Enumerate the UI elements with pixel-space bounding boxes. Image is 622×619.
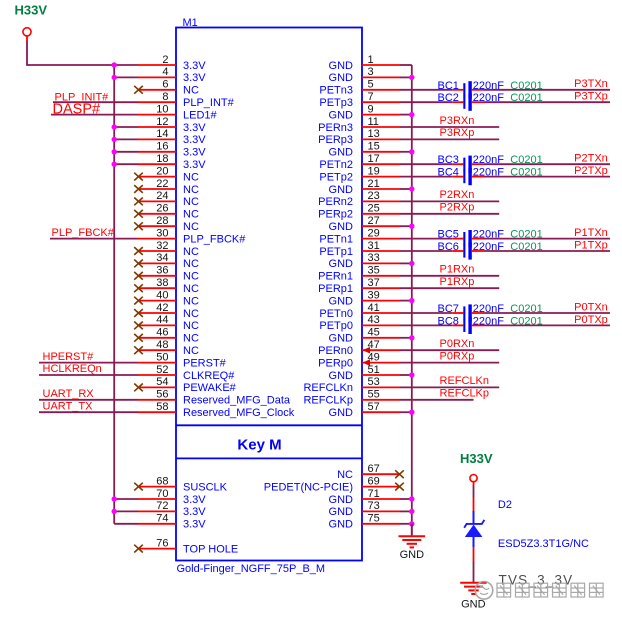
svg-text:39: 39 [368, 289, 380, 301]
pin 19 PETp2 [319, 165, 400, 183]
capacitor BC5 220nF C0201 [438, 229, 543, 248]
svg-text:GND: GND [400, 549, 425, 561]
net label P2RXp [440, 202, 475, 214]
svg-text:31: 31 [368, 240, 380, 252]
pin 26 NC [134, 203, 199, 221]
svg-text:10: 10 [156, 103, 168, 115]
wire BC8 to net P0TXp [484, 324, 610, 326]
wire net P1RXn [400, 275, 499, 277]
svg-text:3.3V: 3.3V [183, 519, 206, 531]
pin 25 PERp2 [318, 203, 400, 221]
svg-text:GND: GND [329, 407, 354, 419]
wire pin 21 to GND bus [400, 186, 414, 191]
svg-text:GND: GND [329, 72, 354, 84]
ground symbol (connector GND) [399, 524, 426, 561]
pin 37 PERp1 [318, 277, 400, 295]
wire pin 7 to BC2 [400, 101, 452, 103]
wire pin 73 to GND bus [400, 509, 414, 514]
svg-text:46: 46 [156, 327, 168, 339]
pin 21 GND [329, 178, 400, 196]
svg-text:12: 12 [156, 116, 168, 128]
svg-text:57: 57 [368, 401, 380, 413]
wire net P0RXn [400, 349, 499, 351]
svg-text:3.3V: 3.3V [183, 494, 206, 506]
wire net UART_RX to pin 56 [39, 399, 138, 401]
svg-text:PLP_FBCK#: PLP_FBCK# [183, 233, 246, 245]
svg-text:BC2: BC2 [438, 92, 459, 104]
svg-text:NC: NC [183, 320, 199, 332]
designator D2 [498, 499, 512, 511]
wire net DASP# to pin 10 [51, 114, 138, 116]
pin 12 3.3V [112, 116, 207, 134]
svg-text:3.3V: 3.3V [183, 134, 206, 146]
pin 44 NC [134, 314, 199, 332]
svg-text:PETp0: PETp0 [319, 320, 353, 332]
pin 72 3.3V [112, 500, 207, 518]
svg-text:2: 2 [162, 54, 168, 66]
svg-text:PETn3: PETn3 [319, 85, 353, 97]
svg-text:GND: GND [461, 598, 486, 610]
capacitor BC1 220nF C0201 [438, 80, 543, 99]
wire pin 15 to GND bus [400, 149, 414, 154]
net label P0RXn [440, 338, 475, 350]
svg-text:P0RXn: P0RXn [440, 338, 475, 350]
pin 11 PERn3 [318, 116, 400, 134]
net label P1TXp [574, 239, 608, 251]
wire net UART_TX to pin 58 [39, 411, 138, 413]
svg-text:75: 75 [368, 513, 380, 525]
wire net REFCLKn [400, 386, 499, 388]
svg-text:11: 11 [368, 116, 379, 128]
pin 24 NC [134, 190, 199, 208]
svg-text:24: 24 [156, 190, 168, 202]
pin 3 GND [329, 66, 400, 84]
svg-text:REFCLKp: REFCLKp [440, 388, 490, 400]
wire BC2 to net P3TXp [484, 101, 610, 103]
wire BC7 to net P0TXn [484, 312, 610, 314]
wire pin 31 to BC6 [400, 250, 452, 252]
svg-text:NC: NC [183, 333, 199, 345]
svg-text:REFCLKp: REFCLKp [303, 395, 353, 407]
net label P1TXn [574, 227, 608, 239]
net label P2TXn [574, 153, 608, 165]
svg-text:PETp3: PETp3 [319, 97, 353, 109]
svg-text:PERST#: PERST# [183, 357, 227, 369]
net label P1RXp [440, 276, 475, 288]
svg-text:43: 43 [368, 314, 380, 326]
wire pin 57 to GND bus [400, 410, 414, 415]
watermark logo [475, 582, 493, 600]
svg-text:PEWAKE#: PEWAKE# [183, 382, 237, 394]
pin 67 NC [337, 463, 404, 481]
svg-text:PERp1: PERp1 [318, 283, 353, 295]
svg-text:SUSCLK: SUSCLK [183, 481, 228, 493]
svg-text:70: 70 [156, 488, 168, 500]
net label PLP_INIT# [55, 92, 110, 104]
svg-text:NC: NC [183, 221, 199, 233]
pin 20 NC [134, 165, 199, 183]
net label PLP_FBCK# [52, 227, 115, 239]
pin 45 GND [329, 327, 400, 345]
svg-text:P3TXp: P3TXp [574, 91, 608, 103]
svg-text:P0TXp: P0TXp [574, 314, 608, 326]
svg-text:30: 30 [156, 227, 168, 239]
svg-text:P2TXp: P2TXp [574, 165, 608, 177]
pin 42 NC [134, 302, 199, 320]
pin 48 NC [134, 339, 199, 357]
svg-text:GND: GND [329, 184, 354, 196]
pin 31 PETp1 [319, 240, 400, 258]
wire net P3RXp [400, 138, 499, 140]
svg-text:BC4: BC4 [438, 167, 459, 179]
svg-text:35: 35 [368, 265, 380, 277]
svg-text:76: 76 [156, 537, 168, 549]
comment TVS_3_3V [499, 573, 574, 588]
svg-text:3: 3 [368, 66, 374, 78]
svg-text:53: 53 [368, 376, 380, 388]
svg-text:REFCLKn: REFCLKn [440, 375, 490, 387]
svg-text:54: 54 [156, 376, 168, 388]
pin 36 NC [134, 265, 199, 283]
net label P0TXp [574, 314, 608, 326]
svg-text:GND: GND [329, 109, 354, 121]
pin 4 3.3V [112, 66, 207, 84]
svg-text:GND: GND [329, 147, 354, 159]
pin 68 SUSCLK [134, 475, 227, 493]
svg-text:27: 27 [368, 215, 380, 227]
svg-text:23: 23 [368, 190, 380, 202]
capacitor BC6 220nF C0201 [438, 241, 543, 260]
pin 13 PERp3 [318, 128, 400, 146]
part name Gold-Finger_NGFF_75P_B_M [177, 563, 326, 575]
svg-text:68: 68 [156, 475, 168, 487]
wire BC1 to net P3TXn [484, 89, 610, 91]
svg-text:P3RXn: P3RXn [440, 115, 475, 127]
GND right bus [411, 65, 413, 535]
svg-text:55: 55 [368, 389, 380, 401]
svg-text:34: 34 [156, 252, 168, 264]
svg-text:GND: GND [329, 333, 354, 345]
pin 53 REFCLKn [303, 376, 400, 394]
svg-text:TVS_3_3V: TVS_3_3V [499, 573, 574, 588]
svg-text:44: 44 [156, 314, 168, 326]
svg-text:15: 15 [368, 141, 380, 153]
svg-text:50: 50 [156, 351, 168, 363]
svg-text:REFCLKn: REFCLKn [303, 382, 353, 394]
pin 6 NC [134, 79, 199, 97]
net label UART_TX [43, 400, 94, 412]
pin 58 Reserved_MFG_Clock [138, 401, 295, 419]
svg-text:26: 26 [156, 203, 168, 215]
net label REFCLKn [440, 375, 490, 387]
svg-text:6: 6 [162, 79, 168, 91]
svg-text:P1RXp: P1RXp [440, 276, 475, 288]
net label P0RXp [440, 350, 475, 362]
svg-text:3.3V: 3.3V [183, 147, 206, 159]
svg-text:P3RXp: P3RXp [440, 127, 475, 139]
wire pin 41 to BC7 [400, 312, 452, 314]
svg-text:67: 67 [368, 463, 380, 475]
svg-text:5: 5 [368, 79, 374, 91]
svg-text:3.3V: 3.3V [183, 159, 206, 171]
net label P2RXn [440, 189, 475, 201]
net label P3TXp [574, 91, 608, 103]
svg-text:GND: GND [329, 258, 354, 270]
pin 57 GND [329, 401, 400, 419]
svg-text:19: 19 [368, 165, 380, 177]
pin 2 3.3V [112, 54, 207, 72]
svg-text:LED1#: LED1# [183, 109, 218, 121]
svg-text:P2TXn: P2TXn [574, 153, 608, 165]
pin 52 CLKREQ# [138, 364, 235, 382]
net label HPERST# [43, 351, 95, 363]
pin 51 GND [329, 364, 400, 382]
svg-text:3.3V: 3.3V [183, 506, 206, 518]
wire pin 33 to GND bus [400, 261, 414, 266]
svg-text:PERn1: PERn1 [318, 271, 353, 283]
wire net REFCLKp [400, 399, 474, 401]
wire net HPERST# to pin 50 [39, 362, 138, 364]
pin 55 REFCLKp [303, 389, 400, 407]
pin 30 PLP_FBCK# [138, 227, 246, 245]
section label Key M [237, 437, 281, 454]
svg-text:1: 1 [368, 54, 374, 66]
net label UART_RX [43, 388, 95, 400]
wire pin 9 to GND bus [400, 112, 414, 117]
svg-text:PETp2: PETp2 [319, 171, 353, 183]
wire H33V to 3.3V bus [27, 41, 114, 65]
svg-text:GND: GND [329, 370, 354, 382]
net label P0TXn [574, 301, 608, 313]
svg-text:13: 13 [368, 128, 380, 140]
power port H33V (bottom right) [460, 451, 493, 485]
svg-text:GND: GND [329, 506, 354, 518]
pin 23 PERn2 [318, 190, 400, 208]
svg-text:9: 9 [368, 103, 374, 115]
wire pin 71 to GND bus [400, 496, 414, 501]
pin 34 NC [134, 252, 199, 270]
power port H33V (top left) [15, 3, 48, 42]
pin 73 GND [329, 500, 400, 518]
svg-text:NC: NC [183, 196, 199, 208]
svg-text:NC: NC [183, 85, 199, 97]
net label P2TXp [574, 165, 608, 177]
wire pin 17 to BC3 [400, 163, 452, 165]
pin 40 NC [134, 289, 199, 307]
svg-text:4: 4 [162, 66, 168, 78]
net label P3TXn [574, 78, 608, 90]
svg-text:BC7: BC7 [438, 303, 459, 315]
svg-text:41: 41 [368, 302, 380, 314]
pin 54 PEWAKE# [134, 376, 236, 394]
pin 46 NC [134, 327, 199, 345]
wire pin 29 to BC5 [400, 238, 452, 240]
svg-text:51: 51 [368, 364, 380, 376]
part value ESD5Z3.3T1G/NC [498, 538, 589, 550]
wire pin 43 to BC8 [400, 324, 452, 326]
wire pin 39 to GND bus [400, 298, 414, 303]
svg-text:42: 42 [156, 302, 168, 314]
svg-text:25: 25 [368, 203, 380, 215]
wire pin 27 to GND bus [400, 224, 414, 229]
pin 28 NC [134, 215, 199, 233]
pin 50 PERST# [138, 351, 227, 369]
svg-text:P2RXn: P2RXn [440, 189, 475, 201]
svg-text:BC8: BC8 [438, 315, 459, 327]
svg-text:CLKREQ#: CLKREQ# [183, 370, 235, 382]
pin 8 PLP_INT# [138, 91, 235, 109]
input arrow pin 47 [363, 347, 371, 354]
wire pin 51 to GND bus [400, 372, 414, 377]
svg-text:P3TXn: P3TXn [574, 78, 608, 90]
svg-text:38: 38 [156, 277, 168, 289]
svg-text:3.3V: 3.3V [183, 72, 206, 84]
pin 22 NC [134, 178, 199, 196]
svg-text:NC: NC [183, 271, 199, 283]
wire net P1RXp [400, 287, 499, 289]
wire BC6 to net P1TXp [484, 250, 610, 252]
net label P3RXp [440, 127, 475, 139]
svg-text:29: 29 [368, 227, 380, 239]
svg-text:22: 22 [156, 178, 168, 190]
svg-text:TOP HOLE: TOP HOLE [183, 543, 238, 555]
svg-text:8: 8 [162, 91, 168, 103]
svg-text:40: 40 [156, 289, 168, 301]
svg-text:Reserved_MFG_Clock: Reserved_MFG_Clock [183, 407, 295, 419]
wire BC3 to net P2TXn [484, 163, 610, 165]
pin 43 PETp0 [319, 314, 400, 332]
svg-text:69: 69 [368, 475, 380, 487]
pin 7 PETp3 [319, 91, 400, 109]
pin 69 PEDET(NC-PCIE) [264, 475, 404, 493]
capacitor BC7 220nF C0201 [438, 303, 543, 322]
svg-text:32: 32 [156, 240, 168, 252]
capacitor BC3 220nF C0201 [438, 154, 543, 173]
3.3V left bus [113, 65, 115, 524]
svg-text:PEDET(NC-PCIE): PEDET(NC-PCIE) [264, 481, 353, 493]
svg-text:PETn0: PETn0 [319, 308, 353, 320]
svg-text:52: 52 [156, 364, 168, 376]
wire net P2RXn [400, 200, 499, 202]
wire pin 5 to BC1 [400, 89, 452, 91]
svg-text:NC: NC [183, 345, 199, 357]
svg-text:BC3: BC3 [438, 154, 459, 166]
svg-text:74: 74 [156, 513, 168, 525]
svg-text:PERp2: PERp2 [318, 209, 353, 221]
net label DASP# [53, 102, 101, 118]
svg-text:Key M: Key M [237, 437, 281, 454]
svg-text:PERn2: PERn2 [318, 196, 353, 208]
pin 75 GND [329, 513, 400, 531]
svg-text:DASP#: DASP# [53, 102, 101, 118]
pin 70 3.3V [112, 488, 207, 506]
pin 14 3.3V [112, 128, 207, 146]
svg-text:M1: M1 [183, 17, 198, 29]
svg-text:7: 7 [368, 91, 374, 103]
wire net P0RXp [400, 362, 499, 364]
svg-text:GND: GND [329, 494, 354, 506]
wire pin 3 to GND bus [400, 75, 414, 80]
svg-text:P1RXn: P1RXn [440, 264, 475, 276]
svg-text:58: 58 [156, 401, 168, 413]
wire net P3RXn [400, 126, 499, 128]
svg-text:NC: NC [183, 171, 199, 183]
pin 38 NC [134, 277, 199, 295]
pin 29 PETn1 [319, 227, 400, 245]
svg-text:NC: NC [183, 209, 199, 221]
pin 39 GND [329, 289, 400, 307]
pin 18 3.3V [112, 153, 207, 171]
pin 1 GND [329, 54, 400, 72]
capacitor BC2 220nF C0201 [438, 92, 543, 111]
pin 32 NC [134, 240, 199, 258]
svg-text:PERp0: PERp0 [318, 357, 353, 369]
svg-text:H33V: H33V [460, 451, 493, 466]
wire net PLP_FBCK# to pin 30 [50, 238, 138, 240]
wire pin 1 to GND bus [400, 64, 412, 66]
svg-text:PERn0: PERn0 [318, 345, 353, 357]
svg-text:D2: D2 [498, 499, 512, 511]
pin 16 3.3V [112, 141, 207, 159]
svg-text:HPERST#: HPERST# [43, 351, 95, 363]
pin 10 LED1# [138, 103, 218, 121]
svg-text:PERp3: PERp3 [318, 134, 353, 146]
pin 17 PETn2 [319, 153, 400, 171]
svg-text:NC: NC [183, 246, 199, 258]
net label HCLKREQn [43, 363, 102, 375]
svg-text:36: 36 [156, 265, 168, 277]
pin 27 GND [329, 215, 400, 233]
svg-text:BC1: BC1 [438, 80, 459, 92]
pin 41 PETn0 [319, 302, 400, 320]
svg-text:P2RXp: P2RXp [440, 202, 475, 214]
designator M1 [183, 17, 198, 29]
pin 35 PERn1 [318, 265, 400, 283]
pin 5 PETn3 [319, 79, 400, 97]
net label P3RXn [440, 115, 475, 127]
connector M1 body Gold-Finger_NGFF_75P_B_M [176, 28, 362, 561]
svg-text:P0TXn: P0TXn [574, 301, 608, 313]
svg-text:72: 72 [156, 500, 168, 512]
TVS diode D2 ESD5Z3.3T1G/NC [464, 511, 484, 547]
svg-text:20: 20 [156, 165, 168, 177]
svg-text:48: 48 [156, 339, 168, 351]
wire BC4 to net P2TXp [484, 176, 610, 178]
wire pin 19 to BC4 [400, 176, 452, 178]
svg-text:GND: GND [329, 60, 354, 72]
pin 15 GND [329, 141, 400, 159]
wire pin 45 to GND bus [400, 335, 414, 340]
svg-text:BC5: BC5 [438, 229, 459, 241]
pin 9 GND [329, 103, 400, 121]
svg-text:ESD5Z3.3T1G/NC: ESD5Z3.3T1G/NC [498, 538, 589, 550]
svg-text:NC: NC [183, 184, 199, 196]
svg-text:14: 14 [156, 128, 168, 140]
svg-text:16: 16 [156, 141, 168, 153]
ground symbol (TVS GND) [460, 583, 487, 611]
pin 47 PERn0 [318, 339, 400, 357]
svg-text:3.3V: 3.3V [183, 60, 206, 72]
wire D2 anode to GND [473, 547, 475, 582]
svg-text:Gold-Finger_NGFF_75P_B_M: Gold-Finger_NGFF_75P_B_M [177, 563, 326, 575]
wire net HCLKREQn to pin 52 [39, 374, 138, 376]
wire H33V to D2 cathode [473, 485, 475, 511]
svg-text:18: 18 [156, 153, 168, 165]
svg-text:UART_RX: UART_RX [43, 388, 95, 400]
svg-text:P1TXn: P1TXn [574, 227, 608, 239]
pin 76 TOP HOLE [134, 537, 238, 555]
svg-text:P0RXp: P0RXp [440, 350, 475, 362]
